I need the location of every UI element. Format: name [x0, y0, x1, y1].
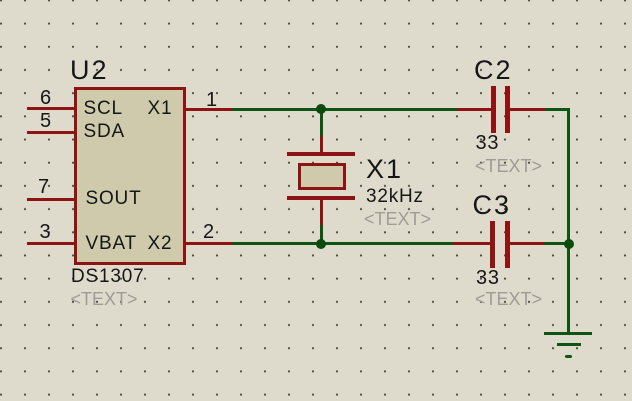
junction node B (bottom) — [316, 239, 326, 249]
junction node C (right) — [564, 239, 574, 249]
X1 refdes label — [366, 156, 403, 183]
capacitor C2 left lead — [457, 108, 491, 111]
crystal X1 bottom stub (red) — [320, 200, 323, 225]
wire: right vertical down to ground — [567, 108, 571, 333]
C2 value 33 — [476, 133, 500, 153]
pin name SCL — [84, 99, 123, 118]
pin number 3 — [40, 222, 51, 242]
pin number 2 — [203, 222, 214, 242]
C3 property text placeholder — [475, 290, 542, 308]
pin number 5 — [40, 111, 51, 131]
pin 3 VBAT lead — [27, 242, 74, 245]
pin number 1 — [206, 90, 217, 110]
crystal X1 body — [298, 163, 346, 190]
pin 5 SDA lead — [27, 131, 74, 134]
C2 property text placeholder — [475, 157, 542, 175]
pin name X2 (inside box) — [148, 234, 173, 253]
pin 2 X2 lead — [186, 242, 232, 245]
pin name SOUT — [86, 189, 142, 208]
C3 refdes label — [473, 192, 512, 219]
capacitor C3 right plate — [505, 221, 510, 268]
capacitor C3 left lead — [453, 242, 490, 245]
wire: pin2 to C3 (bottom horizontal) — [232, 242, 453, 245]
pin 1 X1 lead — [186, 108, 232, 111]
pin number 7 — [38, 177, 49, 197]
capacitor C2 right plate — [505, 86, 510, 133]
wire: C2 right to corner — [545, 108, 570, 111]
C3 value 33 — [476, 268, 500, 288]
crystal X1 top stub (red) — [320, 136, 323, 153]
pin 7 SOUT lead — [27, 198, 74, 201]
wire: crystal bottom vertical (green) — [320, 224, 323, 243]
junction node A (top) — [316, 104, 326, 114]
pin name SDA — [84, 122, 125, 141]
U2 property text placeholder — [71, 290, 138, 308]
capacitor C2 left plate — [491, 86, 496, 133]
pin number 6 — [40, 88, 51, 108]
wire: C3 right to vertical — [544, 242, 567, 245]
wire: crystal top vertical (green) — [320, 109, 323, 136]
capacitor C3 left plate — [490, 221, 495, 268]
ground — [544, 332, 592, 336]
wire: pin1 to C2 (top horizontal) — [232, 108, 458, 111]
IC U2 (DS1307) body — [74, 87, 186, 265]
pin 6 SCL lead — [27, 107, 74, 110]
pin name X1 (inside box) — [148, 99, 173, 118]
U2 refdes label — [70, 57, 109, 84]
pin name VBAT — [86, 234, 137, 253]
X1 value 32kHz — [366, 187, 424, 206]
C2 refdes label — [474, 57, 513, 84]
crystal X1 top plate — [287, 152, 355, 156]
capacitor C2 right lead — [509, 108, 545, 111]
capacitor C3 right lead — [509, 242, 544, 245]
DS1307 value label — [71, 267, 144, 286]
crystal X1 bottom plate — [287, 196, 355, 200]
X1 property text placeholder — [364, 210, 431, 228]
